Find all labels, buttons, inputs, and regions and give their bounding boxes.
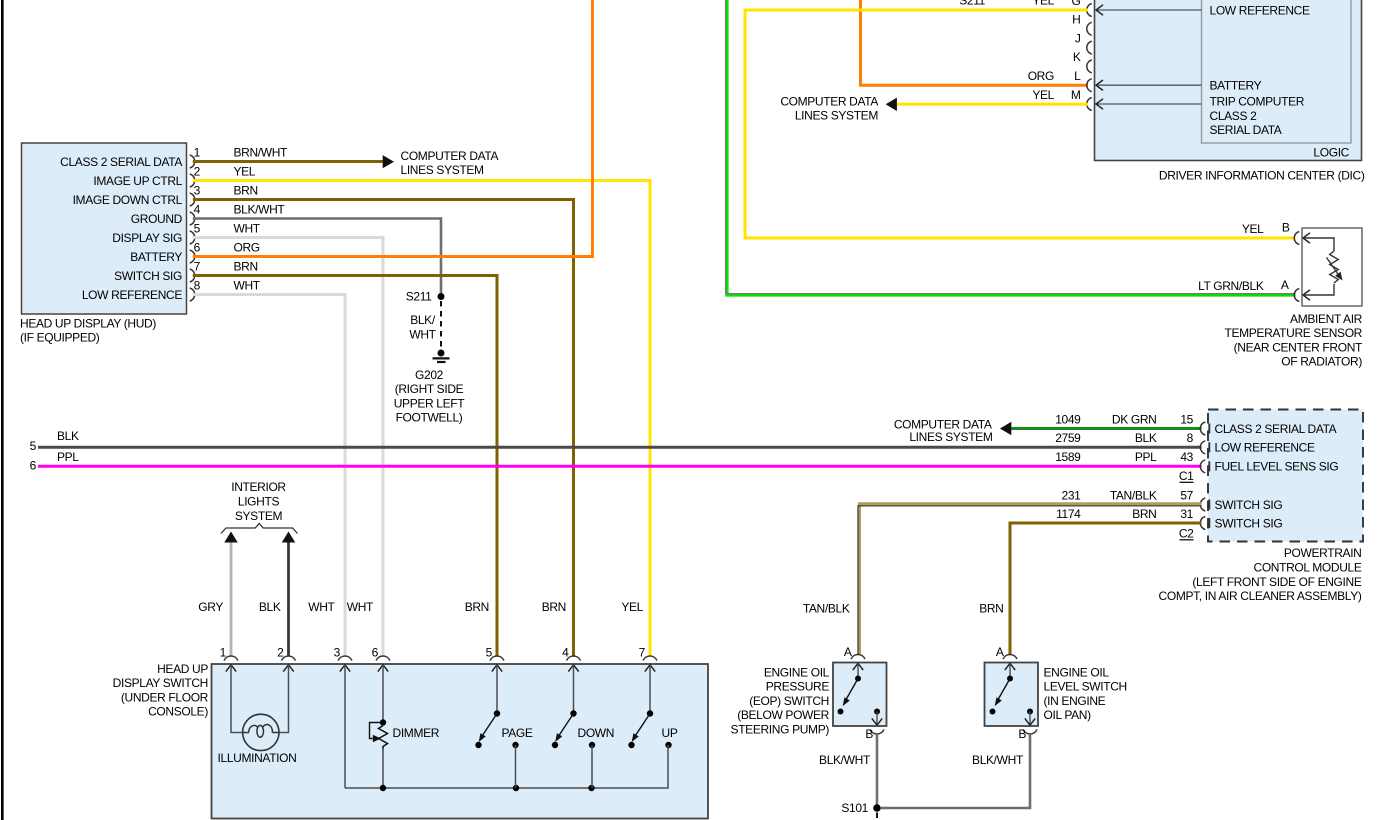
svg-text:SWITCH SIG: SWITCH SIG bbox=[1215, 498, 1283, 512]
svg-text:H: H bbox=[1072, 13, 1080, 27]
svg-text:S211: S211 bbox=[959, 0, 985, 8]
svg-text:G202: G202 bbox=[415, 368, 444, 382]
rheostat DIMMER bbox=[370, 719, 440, 749]
svg-text:1174: 1174 bbox=[1056, 507, 1081, 521]
wire color labels above HUD switch bbox=[198, 600, 643, 614]
svg-text:HEAD UP: HEAD UP bbox=[157, 662, 208, 676]
svg-text:AMBIENT AIR: AMBIENT AIR bbox=[1290, 312, 1363, 326]
dimmer circuit wiring bbox=[345, 665, 383, 788]
wire BLK circuit row 5 bbox=[30, 429, 1202, 453]
DIC internal logic leads bbox=[1096, 3, 1310, 137]
wire BLK/WHT S211 to G202 (dashed) bbox=[440, 301, 442, 349]
svg-text:GRY: GRY bbox=[198, 600, 223, 614]
illumination lamp circuit bbox=[231, 665, 289, 733]
splice S211 bbox=[406, 290, 445, 304]
connector HUD: HEAD UP DISPLAY box bbox=[20, 143, 201, 345]
svg-text:FOOTWELL): FOOTWELL) bbox=[396, 411, 463, 425]
svg-text:INTERIOR: INTERIOR bbox=[231, 480, 286, 494]
svg-text:OIL PAN): OIL PAN) bbox=[1044, 708, 1092, 722]
arrow to computer data lines system bbox=[383, 155, 394, 168]
svg-text:(NEAR CENTER FRONT: (NEAR CENTER FRONT bbox=[1234, 340, 1363, 354]
wire GRY switch pin1 to interior lights bbox=[224, 532, 238, 657]
internal bus wire bbox=[345, 748, 668, 791]
wire ORG HUD pin6 battery feed bbox=[193, 0, 593, 257]
svg-text:IMAGE DOWN CTRL: IMAGE DOWN CTRL bbox=[73, 193, 183, 207]
svg-text:(LEFT FRONT SIDE OF ENGINE: (LEFT FRONT SIDE OF ENGINE bbox=[1192, 575, 1361, 589]
component engine oil level switch box bbox=[985, 645, 1039, 741]
svg-text:A: A bbox=[996, 645, 1004, 659]
wire BLK/WHT oil level pin B to S101 bbox=[881, 734, 1030, 808]
oil level switch caption bbox=[1044, 665, 1127, 722]
svg-text:A: A bbox=[844, 645, 852, 659]
svg-text:DIMMER: DIMMER bbox=[393, 726, 440, 740]
svg-text:LINES SYSTEM: LINES SYSTEM bbox=[795, 109, 879, 123]
switch UP bbox=[628, 665, 678, 748]
wire YEL DIC pin G to ambient sensor pin B bbox=[745, 10, 1296, 238]
svg-text:231: 231 bbox=[1062, 488, 1082, 502]
svg-text:CLASS 2 SERIAL DATA: CLASS 2 SERIAL DATA bbox=[1215, 422, 1337, 436]
svg-text:8: 8 bbox=[1187, 431, 1194, 445]
sensor pin labels bbox=[1198, 221, 1290, 293]
svg-text:5: 5 bbox=[486, 645, 493, 659]
svg-text:CLASS 2 SERIAL DATA: CLASS 2 SERIAL DATA bbox=[60, 155, 182, 169]
svg-text:LOW REFERENCE: LOW REFERENCE bbox=[82, 288, 182, 302]
component EOP switch box bbox=[833, 645, 887, 741]
svg-text:B: B bbox=[865, 727, 873, 741]
svg-text:3: 3 bbox=[334, 645, 341, 659]
svg-text:K: K bbox=[1073, 50, 1081, 64]
svg-text:SWITCH SIG: SWITCH SIG bbox=[1215, 516, 1283, 530]
svg-text:BLK/WHT: BLK/WHT bbox=[819, 753, 871, 767]
svg-text:2: 2 bbox=[194, 164, 201, 178]
svg-text:YEL: YEL bbox=[234, 164, 256, 178]
wire YEL HUD pin2 to switch pin7 bbox=[193, 181, 650, 657]
svg-text:3: 3 bbox=[194, 183, 201, 197]
wire BRN/WHT HUD pin1 to computer data lines bbox=[193, 160, 384, 163]
wire YEL DIC pin M to computer data lines bbox=[897, 103, 1089, 106]
switch DOWN bbox=[552, 665, 614, 788]
svg-text:ENGINE OIL: ENGINE OIL bbox=[764, 665, 830, 679]
svg-text:BLK/: BLK/ bbox=[410, 313, 436, 327]
svg-text:7: 7 bbox=[639, 645, 646, 659]
svg-text:COMPUTER DATA: COMPUTER DATA bbox=[401, 149, 499, 163]
wire below S101 (dashed) bbox=[876, 813, 878, 820]
connector DIC: DRIVER INFORMATION CENTER box bbox=[1095, 0, 1365, 182]
svg-text:BRN/WHT: BRN/WHT bbox=[234, 145, 289, 159]
svg-text:6: 6 bbox=[194, 240, 201, 254]
svg-text:15: 15 bbox=[1180, 412, 1193, 426]
svg-text:BRN: BRN bbox=[979, 602, 1003, 616]
svg-text:DISPLAY SIG: DISPLAY SIG bbox=[112, 231, 182, 245]
HUD pin wire labels bbox=[234, 145, 289, 292]
svg-text:B: B bbox=[1018, 727, 1026, 741]
wire LT GRN/BLK to ambient sensor pin A bbox=[727, 0, 1296, 295]
svg-text:SWITCH SIG: SWITCH SIG bbox=[114, 269, 182, 283]
svg-text:PPL: PPL bbox=[57, 450, 79, 464]
svg-text:M: M bbox=[1071, 88, 1081, 102]
svg-text:WHT: WHT bbox=[308, 600, 335, 614]
svg-text:BRN: BRN bbox=[234, 183, 258, 197]
svg-text:TRIP COMPUTER: TRIP COMPUTER bbox=[1210, 95, 1305, 109]
svg-text:5: 5 bbox=[30, 439, 37, 453]
svg-text:LINES SYSTEM: LINES SYSTEM bbox=[401, 163, 485, 177]
svg-text:BLK: BLK bbox=[259, 600, 281, 614]
wire TAN/BLK PCM pin57 to EOP switch bbox=[858, 504, 1202, 655]
connector HUD switch: HEAD UP DISPLAY SWITCH box bbox=[212, 664, 709, 819]
svg-text:COMPT, IN AIR CLEANER ASSEMBLY: COMPT, IN AIR CLEANER ASSEMBLY) bbox=[1159, 589, 1362, 603]
svg-text:BRN: BRN bbox=[1132, 507, 1156, 521]
svg-text:A: A bbox=[1281, 278, 1289, 292]
svg-text:(EOP) SWITCH: (EOP) SWITCH bbox=[749, 694, 829, 708]
svg-text:J: J bbox=[1075, 31, 1081, 45]
svg-text:LT GRN/BLK: LT GRN/BLK bbox=[1198, 279, 1264, 293]
svg-text:(UNDER FLOOR: (UNDER FLOOR bbox=[121, 690, 209, 704]
svg-text:YEL: YEL bbox=[1032, 88, 1054, 102]
svg-text:ORG: ORG bbox=[1028, 69, 1054, 83]
svg-text:1: 1 bbox=[194, 145, 201, 159]
DIC pins G H J K L M bbox=[1071, 0, 1092, 110]
svg-text:4: 4 bbox=[562, 645, 569, 659]
svg-text:2759: 2759 bbox=[1055, 431, 1081, 445]
svg-text:WHT: WHT bbox=[347, 600, 374, 614]
svg-text:LINES SYSTEM: LINES SYSTEM bbox=[909, 430, 993, 444]
svg-text:LOGIC: LOGIC bbox=[1313, 146, 1349, 160]
svg-text:CONSOLE): CONSOLE) bbox=[148, 705, 208, 719]
svg-text:BLK: BLK bbox=[1135, 431, 1157, 445]
svg-text:(IN ENGINE: (IN ENGINE bbox=[1044, 694, 1106, 708]
wire BLK/WHT HUD pin4 to splice S211 bbox=[193, 219, 441, 297]
wire DK GRN class 2 serial data to computer data lines bbox=[894, 417, 1202, 444]
oil level switch internals bbox=[990, 663, 1036, 725]
svg-text:BRN: BRN bbox=[465, 600, 489, 614]
svg-text:1589: 1589 bbox=[1055, 450, 1081, 464]
svg-text:4: 4 bbox=[194, 202, 201, 216]
svg-text:WHT: WHT bbox=[234, 278, 261, 292]
sensor caption bbox=[1225, 312, 1364, 369]
svg-text:43: 43 bbox=[1180, 450, 1193, 464]
svg-text:ENGINE OIL: ENGINE OIL bbox=[1044, 665, 1110, 679]
svg-text:PAGE: PAGE bbox=[502, 726, 533, 740]
svg-text:LOW REFERENCE: LOW REFERENCE bbox=[1210, 3, 1310, 17]
svg-text:UP: UP bbox=[662, 726, 678, 740]
wire WHT HUD pin8 to switch pin3 bbox=[193, 295, 345, 657]
svg-text:OF RADIATOR): OF RADIATOR) bbox=[1281, 355, 1362, 369]
svg-text:BATTERY: BATTERY bbox=[130, 250, 182, 264]
HUD switch caption bbox=[113, 662, 209, 719]
svg-text:UPPER LEFT: UPPER LEFT bbox=[394, 396, 466, 410]
svg-text:LEVEL SWITCH: LEVEL SWITCH bbox=[1044, 680, 1127, 694]
svg-text:DRIVER INFORMATION CENTER (DIC: DRIVER INFORMATION CENTER (DIC) bbox=[1159, 168, 1365, 182]
wire ORG to DIC pin L bbox=[861, 0, 1089, 85]
wire BRN HUD pin7 to switch pin5 bbox=[193, 276, 497, 657]
wire BRN PCM pin31 to oil level switch bbox=[1010, 523, 1202, 655]
svg-text:2: 2 bbox=[277, 645, 284, 659]
svg-text:PPL: PPL bbox=[1135, 450, 1157, 464]
svg-text:1049: 1049 bbox=[1055, 412, 1081, 426]
ground G202 bbox=[433, 350, 450, 363]
svg-text:HEAD UP DISPLAY (HUD): HEAD UP DISPLAY (HUD) bbox=[20, 316, 156, 330]
svg-text:TAN/BLK: TAN/BLK bbox=[803, 602, 850, 616]
svg-text:ORG: ORG bbox=[234, 240, 260, 254]
svg-text:PRESSURE: PRESSURE bbox=[766, 680, 830, 694]
arrow computer data lines system (DIC) bbox=[886, 98, 897, 111]
svg-text:C1: C1 bbox=[1179, 469, 1194, 483]
svg-text:8: 8 bbox=[194, 278, 201, 292]
svg-text:LIGHTS: LIGHTS bbox=[238, 495, 280, 509]
PCM connector C1 bbox=[1179, 469, 1194, 483]
splice S101 bbox=[841, 801, 880, 815]
HUD switch pins bbox=[220, 645, 657, 671]
svg-text:YEL: YEL bbox=[621, 600, 643, 614]
svg-text:SERIAL DATA: SERIAL DATA bbox=[1210, 123, 1282, 137]
PCM caption bbox=[1159, 546, 1362, 603]
svg-text:WHT: WHT bbox=[234, 221, 261, 235]
svg-text:YEL: YEL bbox=[1032, 0, 1054, 8]
svg-text:BRN: BRN bbox=[542, 600, 566, 614]
svg-text:FUEL LEVEL SENS SIG: FUEL LEVEL SENS SIG bbox=[1215, 460, 1339, 474]
svg-text:(BELOW POWER: (BELOW POWER bbox=[737, 708, 829, 722]
svg-text:CLASS 2: CLASS 2 bbox=[1210, 109, 1258, 123]
svg-text:TAN/BLK: TAN/BLK bbox=[1110, 488, 1157, 502]
EOP switch internals bbox=[838, 663, 883, 725]
svg-text:IMAGE UP CTRL: IMAGE UP CTRL bbox=[93, 174, 182, 188]
svg-text:6: 6 bbox=[30, 459, 37, 473]
svg-text:BLK/WHT: BLK/WHT bbox=[972, 753, 1024, 767]
svg-text:G: G bbox=[1072, 0, 1081, 8]
svg-text:POWERTRAIN: POWERTRAIN bbox=[1284, 546, 1362, 560]
G202 label bbox=[394, 368, 466, 425]
svg-text:S101: S101 bbox=[841, 801, 868, 815]
svg-text:DISPLAY SWITCH: DISPLAY SWITCH bbox=[113, 676, 208, 690]
svg-text:BLK: BLK bbox=[57, 429, 79, 443]
svg-text:DK GRN: DK GRN bbox=[1112, 412, 1157, 426]
wire BLK/WHT EOP pin B to S101 bbox=[876, 734, 879, 805]
svg-text:5: 5 bbox=[194, 221, 201, 235]
svg-text:57: 57 bbox=[1180, 488, 1193, 502]
svg-text:ILLUMINATION: ILLUMINATION bbox=[218, 751, 297, 765]
svg-text:SYSTEM: SYSTEM bbox=[235, 509, 283, 523]
wire WHT HUD pin5 to switch pin6 bbox=[193, 238, 383, 657]
svg-text:BLK/WHT: BLK/WHT bbox=[234, 202, 286, 216]
svg-text:YEL: YEL bbox=[1242, 222, 1264, 236]
svg-text:STEERING PUMP): STEERING PUMP) bbox=[731, 723, 830, 737]
svg-text:31: 31 bbox=[1180, 507, 1193, 521]
svg-text:B: B bbox=[1282, 221, 1290, 235]
connector PCM: POWERTRAIN CONTROL MODULE (dashed) bbox=[1208, 410, 1363, 542]
wire BLK switch pin2 to interior lights bbox=[282, 532, 296, 657]
svg-text:L: L bbox=[1074, 69, 1081, 83]
switch PAGE bbox=[475, 665, 533, 788]
svg-text:C2: C2 bbox=[1179, 526, 1194, 540]
svg-text:DOWN: DOWN bbox=[578, 726, 615, 740]
svg-text:GROUND: GROUND bbox=[131, 212, 183, 226]
svg-text:CONTROL MODULE: CONTROL MODULE bbox=[1254, 561, 1362, 575]
EOP switch caption bbox=[731, 665, 830, 736]
svg-text:(RIGHT SIDE: (RIGHT SIDE bbox=[395, 382, 464, 396]
svg-text:BATTERY: BATTERY bbox=[1210, 79, 1262, 93]
wire PPL circuit row 6 bbox=[30, 450, 1202, 472]
svg-text:COMPUTER DATA: COMPUTER DATA bbox=[780, 94, 878, 108]
svg-text:7: 7 bbox=[194, 259, 201, 273]
component ambient air temperature sensor bbox=[1294, 228, 1362, 306]
svg-text:(IF EQUIPPED): (IF EQUIPPED) bbox=[20, 331, 100, 345]
PCM pins and labels bbox=[1055, 412, 1338, 530]
svg-text:S211: S211 bbox=[406, 290, 432, 304]
thermistor inside sensor bbox=[1327, 251, 1343, 283]
lamp ILLUMINATION bbox=[218, 714, 297, 765]
wire BRN HUD pin3 to switch pin4 bbox=[193, 200, 574, 657]
svg-text:LOW REFERENCE: LOW REFERENCE bbox=[1215, 441, 1315, 455]
svg-text:6: 6 bbox=[372, 645, 379, 659]
svg-text:BRN: BRN bbox=[234, 259, 258, 273]
svg-text:1: 1 bbox=[220, 645, 227, 659]
interior lights system label and brace bbox=[221, 480, 298, 533]
PCM connector C2 bbox=[1179, 526, 1194, 540]
svg-text:WHT: WHT bbox=[409, 328, 436, 342]
svg-text:TEMPERATURE SENSOR: TEMPERATURE SENSOR bbox=[1225, 326, 1363, 340]
